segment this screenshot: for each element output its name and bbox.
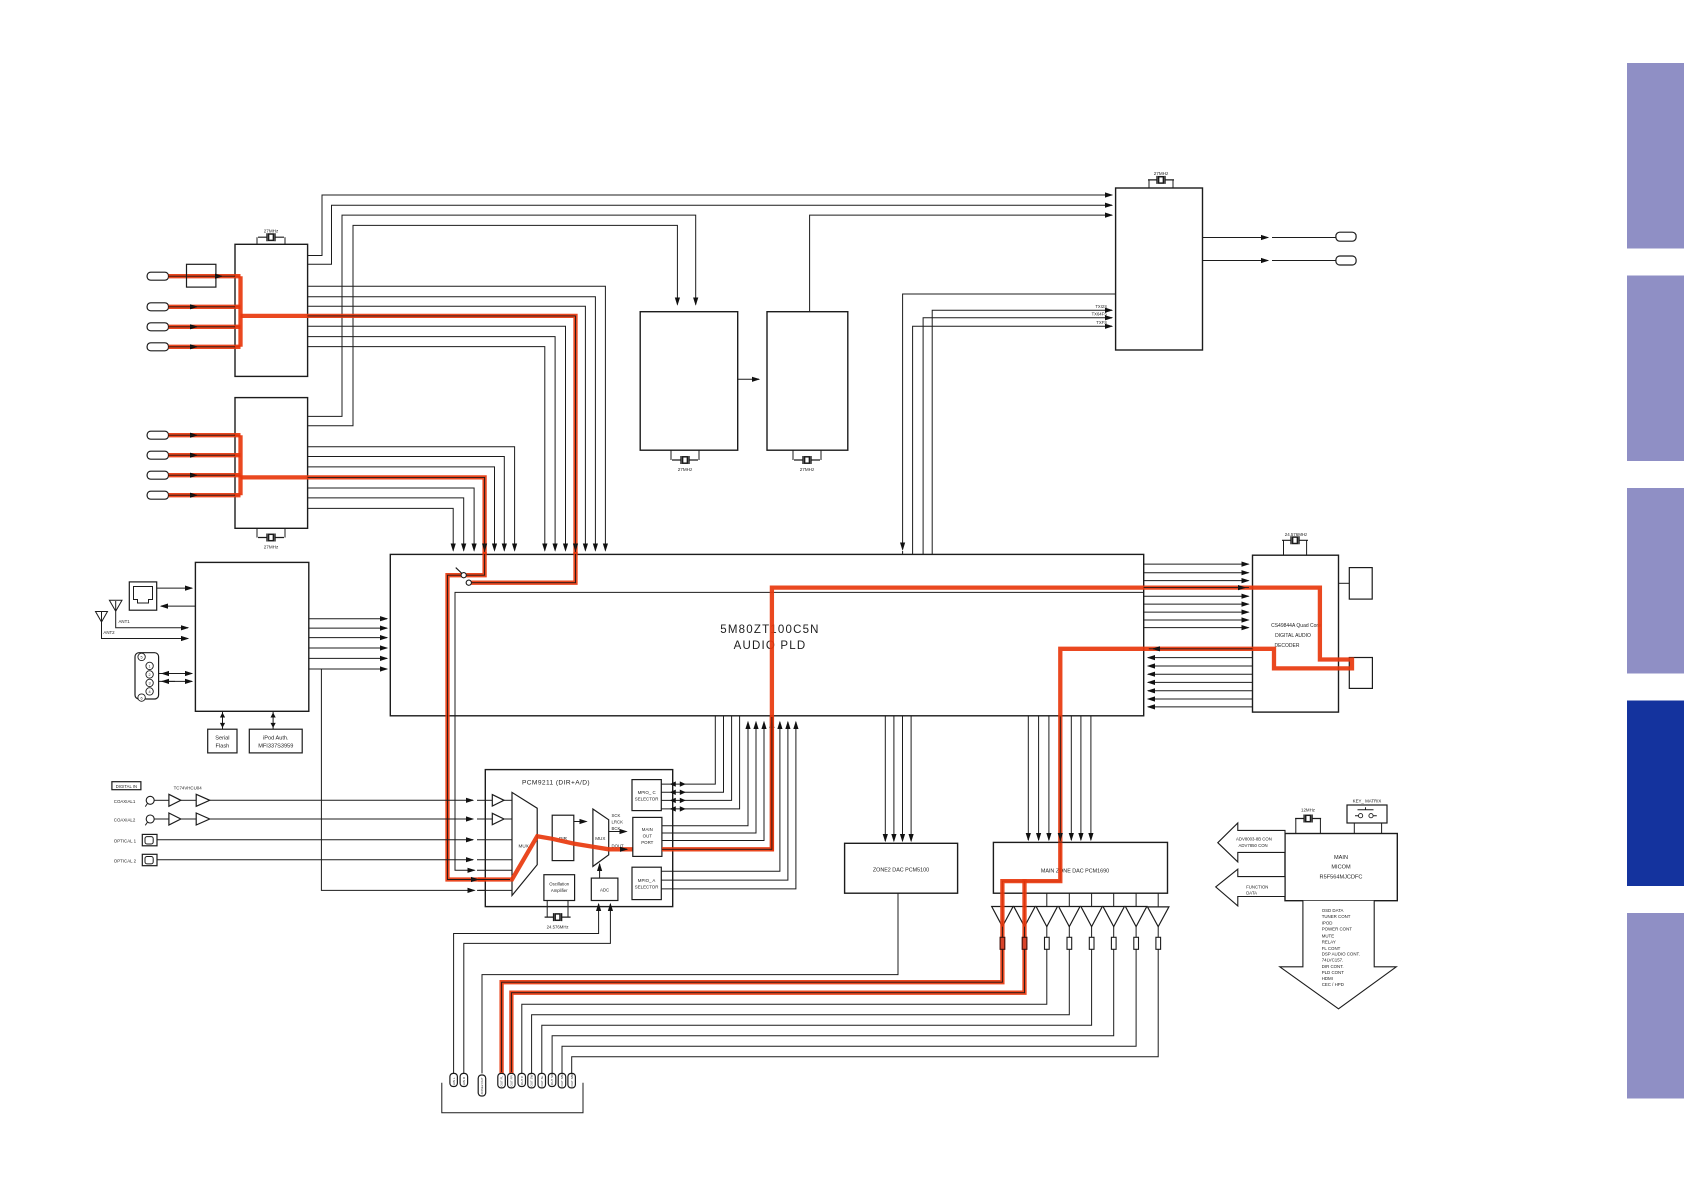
wire bus CS49844A to PLD 5 [1148, 681, 1253, 683]
svg-text:RELAY: RELAY [1322, 940, 1336, 945]
wire U1 bus3 to PLD [308, 306, 586, 550]
arrow DOUT into MAIN OUT PORT [625, 848, 627, 850]
svg-text:OPTICAL 2: OPTICAL 2 [114, 858, 137, 863]
svg-text:OUT SL: OUT SL [540, 1075, 544, 1086]
HDMI Rx block U2 (lower-left) [235, 398, 308, 529]
wire bus CS49844A to PLD 3 [1148, 665, 1253, 667]
svg-text:27MHz: 27MHz [1154, 171, 1169, 176]
wire radio block to PLD 4 [309, 647, 387, 649]
HDMI out connector J10 [1336, 256, 1356, 265]
AUDIO PLD block 5M80ZT100C5N [390, 554, 1143, 715]
svg-text:OUT SR: OUT SR [550, 1073, 554, 1085]
wire MUX2 clock out to MAIN OUT PORT [609, 831, 627, 833]
svg-text:BCK: BCK [612, 826, 621, 831]
wire OPTICAL1 to PCM9211 [157, 839, 473, 841]
crystal X4 27MHz below block B [793, 450, 821, 460]
wire U2 bus2 to PLD [308, 457, 505, 551]
red main R channel to pin 5 [511, 881, 1024, 1071]
svg-text:TC74VHCU04: TC74VHCU04 [174, 785, 203, 790]
wire A3 chain to pin 6 [522, 893, 1047, 1073]
wire PLD to PCM1690 5 [1070, 716, 1072, 840]
wire OPTICAL2 to PCM9211 [157, 859, 473, 861]
wire U2 bus3 to PLD [308, 467, 495, 551]
crystal X5 27MHz above HDMI Tx [1149, 180, 1173, 188]
output op-amp A5 [1081, 907, 1102, 927]
svg-text:LRCK: LRCK [612, 820, 624, 825]
svg-text:3: 3 [149, 682, 151, 686]
arrow red into PCM9211 [476, 879, 478, 881]
ADC box [591, 878, 618, 900]
page tab 5 [1627, 913, 1684, 1099]
wire A8 chain to pin 11 [572, 893, 1158, 1073]
wire block to iPod Auth (bidir) [272, 711, 274, 729]
wire radio block down to PCM9211 MUX [321, 669, 474, 890]
svg-text:DATA: DATA [1246, 891, 1257, 896]
wire PLD to PCM1690 1 [1027, 716, 1029, 840]
wire radio block to PLD 5 [309, 657, 387, 659]
antenna ANT2 [96, 612, 189, 639]
svg-text:PORT: PORT [641, 840, 653, 845]
wire PLD to ZONE2 DAC 1 [884, 716, 886, 841]
wire COAXIAL1 to PCM9211 [210, 799, 473, 801]
resistor R8 [1156, 937, 1161, 949]
svg-text:74LVC157.: 74LVC157. [1322, 958, 1344, 963]
wire U2 bus6 to PLD [308, 498, 464, 551]
wire U2 out top1 via riser to block A [308, 215, 696, 416]
video processor block B [767, 312, 848, 451]
wire U1 bus7 to PLD [308, 347, 545, 551]
svg-text:TXFS: TXFS [1096, 320, 1107, 325]
svg-text:MUX: MUX [519, 844, 529, 849]
svg-text:OSD DATA: OSD DATA [1322, 908, 1344, 913]
wire bus PLD to CS49844A 3 [1144, 580, 1249, 582]
svg-text:TXI2S: TXI2S [1095, 304, 1107, 309]
wire CS49844A to K1 [1339, 582, 1350, 584]
arrow on J8 wire [195, 494, 197, 496]
wire MAIN OUT PORT to PLD 2 [662, 722, 756, 833]
input MUX trapezoid [512, 792, 537, 895]
MAIN OUT PORT box [633, 817, 662, 856]
wire bus PLD to CS49844A 6 [1144, 603, 1249, 605]
svg-text:KEY_ MATRIX: KEY_ MATRIX [1353, 799, 1382, 804]
black core wires over red highlights [169, 276, 236, 347]
arrow red into CS49844A [1243, 587, 1245, 589]
svg-text:Serial: Serial [215, 736, 229, 742]
connector pin 10 [558, 1073, 566, 1088]
wire J12 to block (bidir) 1 [159, 673, 192, 675]
wire bus CS49844A to PLD 8 [1148, 706, 1253, 708]
arrow U1 red bus into PLD (black head) [575, 549, 577, 551]
connector pin 5 [508, 1073, 515, 1088]
svg-text:Flash: Flash [216, 744, 230, 750]
wire bus CS49844A to PLD 1 (red return) [1148, 648, 1253, 650]
wire A4 chain to pin 7 [532, 893, 1070, 1073]
svg-text:MUTE: MUTE [1322, 933, 1335, 938]
wire U1 bus4 (red audio) to PLD [308, 316, 576, 551]
HDMI Rx block U1 (top-left) [235, 244, 308, 376]
red bus inside U2 [238, 435, 242, 495]
output op-amp A6 [1103, 907, 1124, 927]
video processor block A [640, 312, 738, 451]
KEY_MATRIX box [1347, 805, 1387, 823]
wire KEY_MATRIX to MICOM 2 [1381, 823, 1383, 834]
wire MAIN OUT PORT to PLD 3 [662, 722, 764, 841]
svg-text:CS49844A Quad Core: CS49844A Quad Core [1271, 623, 1321, 629]
buffer U3a [154, 799, 169, 801]
svg-text:ANT1: ANT1 [119, 619, 131, 624]
wire MPIO_A to PLD 1 [661, 722, 780, 871]
svg-text:5: 5 [141, 656, 143, 660]
wire HDMI Tx to PLD (video return) [903, 294, 1116, 550]
wire HDMI Tx out2 to connector [1203, 260, 1269, 262]
svg-text:ADV7850 CON: ADV7850 CON [1239, 843, 1268, 848]
COAXIAL1 jack [146, 796, 154, 804]
wire J3 to U1 (red highlighted) [169, 326, 241, 328]
wire J6 to U2 (red highlighted) [169, 454, 241, 456]
wire U1 bus2 to PLD [308, 297, 596, 551]
wire J11 to block [157, 587, 192, 589]
svg-text:Oscillation: Oscillation [549, 882, 569, 887]
svg-text:DECODER: DECODER [1274, 643, 1299, 649]
MPIO_A SELECTOR box [632, 867, 661, 899]
wire ADC out to MUX2 [599, 864, 601, 878]
red segments inside PLD to switch SW1 [466, 552, 484, 575]
wire MPIO_A to PLD 2 [661, 722, 788, 880]
resistor R6 [1111, 937, 1116, 949]
svg-text:MAIN ZONE DAC PCM1690: MAIN ZONE DAC PCM1690 [1041, 869, 1109, 875]
connector pin 11 [568, 1073, 576, 1088]
wire bus PLD to CS49844A 9 [1144, 627, 1249, 629]
red path through PCM9211 [478, 836, 662, 879]
svg-text:DIGITAL IN: DIGITAL IN [116, 784, 137, 789]
svg-text:SELECTOR: SELECTOR [635, 885, 659, 890]
wire MPIO_C to PLD (bidir) 1 [661, 716, 715, 784]
output MUX trapezoid [593, 809, 609, 866]
wire PLD to ZONE2 DAC 2 [893, 716, 895, 841]
svg-text:SELECTOR: SELECTOR [635, 797, 659, 802]
arrow red return into PLD [1153, 648, 1155, 650]
HDMI input connector J2 [147, 303, 168, 311]
COAXIAL2 jack [146, 815, 154, 823]
wire TXI2S PLD to HDMI Tx [932, 310, 1112, 554]
switch SW1 lever [456, 568, 462, 574]
svg-text:2: 2 [149, 673, 151, 677]
wire pin2 to ADC in R [464, 904, 611, 1073]
MPIO_C SELECTOR box [632, 780, 661, 811]
wire U2 bus5 to PLD [308, 488, 475, 551]
svg-text:ZONE2 OUT: ZONE2 OUT [480, 1077, 484, 1094]
arrow on J3 wire [195, 326, 197, 328]
svg-text:MPIO_ C: MPIO_ C [638, 790, 656, 795]
arrow U2 red bus into PLD (black head) [484, 549, 486, 551]
wire MPIO_C to PLD (bidir) 3 [661, 716, 731, 800]
svg-text:27MHz: 27MHz [678, 467, 693, 472]
wire block to Serial Flash (bidir) [222, 711, 224, 729]
wire block B up to HDMI Tx [810, 215, 1112, 312]
svg-text:12MHz: 12MHz [1301, 808, 1315, 813]
wire bus CS49844A to PLD 7 [1148, 698, 1253, 700]
svg-text:SCK: SCK [612, 813, 621, 818]
svg-text:IPOD: IPOD [1322, 920, 1333, 925]
svg-text:ADC: ADC [600, 888, 609, 893]
resistor R7 [1134, 937, 1139, 949]
wire TX64FS PLD to HDMI Tx [923, 318, 1112, 555]
page tab 1 [1627, 63, 1684, 249]
ZONE2 DAC PCM5100 block [845, 843, 958, 893]
wire MAIN OUT PORT to PLD 1 [662, 722, 748, 826]
crystal X1 27MHz above U1 [257, 237, 285, 244]
wire PLD to PCM1690 4 (red) arrow [1059, 838, 1061, 840]
resistor R2 [1022, 937, 1027, 949]
svg-text:PLD CONT: PLD CONT [1322, 970, 1345, 975]
svg-text:24.576MHz: 24.576MHz [547, 925, 569, 930]
wire DIR to MUX2 [574, 821, 587, 823]
wire bus PLD to CS49844A 4 (red I2S) [1144, 587, 1249, 589]
arrow on J5 wire [195, 434, 197, 436]
wire PLD to ZONE2 DAC 3 [902, 716, 904, 841]
wire A7 chain to pin 10 [562, 893, 1136, 1073]
key switch symbol [1359, 814, 1363, 818]
internal buffer coax1 [492, 795, 504, 806]
DSP connector box K2 [1349, 658, 1372, 689]
svg-text:AIN R: AIN R [462, 1076, 466, 1085]
svg-text:OUT FR: OUT FR [510, 1075, 514, 1087]
svg-text:4: 4 [149, 690, 151, 694]
internal buffer coax2 [492, 813, 504, 824]
HDMI input connector J7 [147, 471, 168, 479]
wire J1 to U1 (red highlighted) [169, 275, 241, 277]
svg-text:TX64FS: TX64FS [1092, 311, 1108, 316]
HDMI input connector J8 [147, 491, 168, 499]
resistor R3 [1045, 937, 1050, 949]
red path PLD to CS49844A to K2 [772, 588, 1352, 882]
svg-text:OUT SBR: OUT SBR [570, 1072, 574, 1086]
connector pin 6 [518, 1073, 526, 1086]
wire PLD to PCM1690 7 [1090, 716, 1092, 840]
page tab 2 [1627, 276, 1684, 462]
wire ZONE2 DAC out to pin 3 [482, 893, 898, 1073]
svg-text:OUT FL: OUT FL [500, 1076, 504, 1087]
wire pin1 to ADC in L [454, 904, 599, 1073]
wire J4 to U1 (red highlighted) [169, 346, 241, 348]
svg-text:FUNCTION: FUNCTION [1246, 884, 1268, 889]
connector pin 7 [528, 1073, 536, 1088]
svg-text:PCM9211 (DIR+A/D): PCM9211 (DIR+A/D) [522, 780, 590, 787]
wire U1 out top2 to HDMI Tx [308, 205, 1112, 264]
arrow on J1 wire [220, 275, 222, 277]
svg-text:COAXIAL2: COAXIAL2 [114, 818, 136, 823]
crystal X8 12MHz above MICOM [1296, 819, 1321, 834]
wire A6 chain to pin 9 [552, 893, 1114, 1073]
wire radio block to PLD 1 [309, 618, 387, 620]
output op-amp A4 [1059, 907, 1080, 927]
resistor R5 [1089, 937, 1094, 949]
wire bus PLD to CS49844A 7 [1144, 611, 1249, 613]
PCM9211 MUX input continuation 7 [477, 889, 512, 891]
wire J2 to U1 (red highlighted) [169, 306, 241, 308]
audio connector bracket [442, 1083, 583, 1113]
input select switch SW1 contact a [461, 573, 466, 578]
output op-amp A1 [992, 907, 1013, 927]
HDMI input connector J5 [147, 431, 168, 439]
svg-text:ADV8003-8B CON: ADV8003-8B CON [1236, 837, 1272, 842]
PLD inner shelf line [455, 592, 1144, 870]
wire radio block to PLD 6 [309, 668, 387, 670]
connector pin 2 [460, 1073, 468, 1086]
svg-text:TUNER CONT: TUNER CONT [1322, 914, 1351, 919]
wire U1 bus1 to PLD [308, 286, 606, 550]
crystal X3 27MHz below block A [671, 450, 699, 460]
wire radio block to PLD 2 [309, 627, 387, 629]
svg-text:DIGITAL AUDIO: DIGITAL AUDIO [1275, 633, 1311, 639]
svg-text:R5F564MJCDFC: R5F564MJCDFC [1320, 875, 1363, 881]
wire U1 bus5 to PLD [308, 326, 566, 550]
wire PLD to PCM1690 6 [1080, 716, 1082, 840]
iPod Auth chip MFI337S3959 [249, 729, 302, 753]
svg-text:COAXIAL1: COAXIAL1 [114, 799, 136, 804]
svg-text:OUT: OUT [643, 834, 653, 839]
crystal X6 24.576MHz above CS49844A [1284, 540, 1307, 555]
input select switch SW1 contact b [466, 580, 471, 585]
network/iPod interface block [195, 562, 308, 711]
wire MPIO_C to PLD (bidir) 2 [661, 716, 723, 792]
svg-text:27MHz: 27MHz [800, 467, 815, 472]
svg-text:iPod Auth.: iPod Auth. [263, 736, 289, 742]
MAIN MICOM block R5F564MJCDFC [1285, 834, 1397, 901]
wire radio block to PLD 3 [309, 637, 387, 639]
antenna ANT1 [109, 600, 188, 628]
output op-amp A7 [1125, 907, 1146, 927]
resistor R4 [1067, 937, 1072, 949]
arrow on J7 wire [195, 474, 197, 476]
block arrow FUNCTION DATA [1216, 869, 1285, 906]
connector pin 4 [498, 1073, 506, 1088]
svg-text:ANT2: ANT2 [103, 630, 115, 635]
wire MPIO_C to PLD (bidir) 4 [661, 716, 739, 809]
svg-text:MAIN: MAIN [1334, 855, 1348, 861]
page tab 4 (active) [1627, 701, 1684, 887]
svg-text:24.576MHz: 24.576MHz [1285, 532, 1307, 537]
svg-text:OPTICAL 1: OPTICAL 1 [114, 839, 137, 844]
svg-text:27MHz: 27MHz [264, 229, 279, 234]
crystal X7 24.576MHz below PCM9211 [547, 901, 568, 918]
wire bus CS49844A to PLD 2 [1148, 657, 1253, 659]
svg-text:Amplifier: Amplifier [551, 888, 568, 893]
svg-text:HDMI: HDMI [1322, 976, 1333, 981]
output op-amp A3 [1036, 907, 1057, 927]
PCM9211 MUX input continuation 5 [477, 869, 512, 871]
resistor R1 [1000, 937, 1005, 949]
wire U2 bus4 (red audio) to PLD [308, 477, 485, 550]
svg-text:OUT SBL: OUT SBL [560, 1073, 564, 1086]
output op-amp A2 [1014, 907, 1035, 927]
wire COAXIAL2 to PCM9211 [210, 818, 473, 820]
block arrow ADV8003-8B CON / ADV7850 CON [1218, 823, 1285, 862]
wire bus PLD to CS49844A 2 [1144, 572, 1249, 574]
wire block to J11 [161, 605, 195, 607]
svg-text:MICOM: MICOM [1331, 865, 1351, 871]
wire PLD to PCM1690 2 [1038, 716, 1040, 840]
HDMI input connector J3 [147, 323, 168, 331]
svg-text:1: 1 [149, 665, 151, 669]
OPTICAL 2 jack [142, 854, 157, 865]
wire J7 to U2 (red highlighted) [169, 474, 241, 476]
HDMI input connector J6 [147, 451, 168, 459]
red bus inside U1 [238, 276, 242, 347]
wire HDMI Tx out1 to connector [1203, 237, 1269, 239]
red main L channel to pin 4 [502, 842, 1061, 1071]
HDMI input connector J1 [147, 272, 168, 280]
buffer U3b [181, 799, 196, 801]
arrow red up into PLD bottom [771, 721, 773, 723]
wire block A to block B [738, 378, 759, 380]
buffer U4a [154, 818, 169, 820]
wire U2 bus1 to PLD [308, 447, 515, 551]
svg-text:OUT SW: OUT SW [530, 1074, 534, 1086]
svg-text:27MHz: 27MHz [264, 545, 279, 550]
arrow on J4 wire [195, 346, 197, 348]
wire J12 to block (bidir) 2 [159, 680, 192, 682]
big down arrow control bus [1280, 901, 1397, 1009]
wire bus PLD to CS49844A 5 [1144, 595, 1249, 597]
wire U2 out top2 via riser to block A [308, 225, 678, 425]
svg-text:CEC / HPD: CEC / HPD [1322, 982, 1344, 987]
crystal X2 27MHz below U2 [257, 528, 285, 537]
wire bus PLD to CS49844A 8 [1144, 619, 1249, 621]
svg-text:OUT C: OUT C [520, 1075, 524, 1085]
svg-text:MAIN: MAIN [642, 827, 653, 832]
svg-text:FL CONT: FL CONT [1322, 946, 1341, 951]
connector pin 3 [478, 1075, 486, 1096]
arrow on J6 wire [195, 454, 197, 456]
modular jack J11 [129, 582, 156, 610]
svg-text:MFI337S3959: MFI337S3959 [258, 744, 293, 750]
buffer U4b [181, 818, 196, 820]
svg-text:6: 6 [141, 696, 143, 700]
wire U1 out top1 to HDMI Tx [308, 195, 1112, 256]
CS49844A decoder block [1253, 555, 1339, 712]
wire KEY_MATRIX to MICOM 1 [1353, 823, 1355, 834]
arrow on J2 wire [195, 306, 197, 308]
MAIN ZONE DAC PCM1690 block [993, 842, 1167, 893]
HDMI out connector J9 [1336, 232, 1356, 241]
OPTICAL 1 jack [142, 834, 157, 845]
connector pin 8 [538, 1073, 546, 1088]
wire U1 bus6 to PLD [308, 337, 555, 551]
DSP connector box K1 [1349, 568, 1372, 600]
page tab 3 [1627, 488, 1684, 674]
red highlight U2 bus4 [241, 477, 485, 575]
svg-text:AIN L: AIN L [452, 1077, 456, 1085]
svg-text:DIR CONT.: DIR CONT. [1322, 964, 1344, 969]
DIN connector J12 [135, 653, 159, 699]
svg-text:DSP AUDIO CONT.: DSP AUDIO CONT. [1322, 951, 1360, 956]
red DOUT wire to PLD riser [662, 720, 772, 849]
wire J8 to U2 (red highlighted) [169, 494, 241, 496]
output op-amp A8 [1148, 907, 1169, 927]
DIGITAL IN label [112, 782, 141, 790]
wire PLD to ZONE2 DAC 4 [910, 716, 912, 841]
connector pin 9 [548, 1073, 556, 1086]
wire A5 chain to pin 8 [542, 893, 1092, 1073]
DIR block [552, 815, 574, 860]
wire TXFS PLD to HDMI Tx [913, 326, 1112, 554]
wire MPIO_A to PLD 3 [661, 722, 796, 889]
wire U2 bus7 to PLD [308, 508, 454, 550]
HDMI input connector J4 [147, 343, 168, 351]
wire bus CS49844A to PLD 6 [1148, 690, 1253, 692]
switch SW1 contacts redraw [461, 573, 466, 578]
